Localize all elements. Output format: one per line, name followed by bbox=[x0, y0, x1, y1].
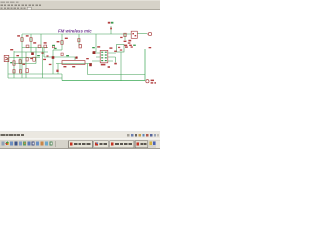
wire: vertical x=58 bbox=[57, 64, 59, 75]
value specks mid bbox=[42, 52, 49, 56]
resistor R7 bbox=[13, 61, 15, 65]
capacitor C2 bbox=[79, 45, 81, 48]
wire: vertical at x=125 bbox=[124, 34, 126, 40]
resistor R8 bbox=[19, 60, 21, 64]
transistor Q1 bbox=[131, 31, 137, 38]
menu / toolbar row bbox=[1, 4, 42, 6]
task button 4 (active) bbox=[135, 141, 148, 148]
resistor R5 bbox=[44, 45, 47, 48]
capacitor C3 bbox=[26, 58, 28, 61]
wire: vertical x=26 bbox=[25, 52, 27, 78]
status bar text bbox=[1, 134, 24, 136]
resistor R10 bbox=[19, 70, 21, 73]
resistor R11 bbox=[26, 69, 29, 73]
IC label text bbox=[101, 64, 106, 66]
wire: vertical at x=31 bbox=[30, 34, 32, 53]
node junction dot bbox=[75, 57, 77, 59]
value label specks bbox=[10, 35, 151, 72]
wire: output line y=33.5 right bbox=[137, 33, 147, 35]
taskbar bbox=[0, 139, 160, 149]
wire: top supply rail bbox=[22, 33, 131, 35]
wire: horizontal y=50 bbox=[53, 49, 62, 51]
resistor R6 bbox=[61, 41, 63, 45]
battery label bbox=[151, 80, 156, 84]
wire: horizontal y=63.5 bbox=[14, 63, 36, 65]
quick launch icons bbox=[2, 142, 53, 146]
wire: vertical x=121 bbox=[120, 52, 122, 81]
junction node square bbox=[93, 51, 96, 54]
resistor R1 bbox=[21, 38, 23, 42]
connector J1 (microphone input) bbox=[4, 55, 9, 61]
wire: horizontal y=74 mid bbox=[8, 73, 62, 75]
wire: vertical at x=62 bbox=[61, 34, 63, 50]
resistor R2 bbox=[30, 38, 32, 42]
wire: vertical x=62 lower bbox=[61, 74, 63, 81]
taskbar divider bbox=[54, 141, 57, 147]
wire: ground rail left y=78 bbox=[8, 77, 62, 79]
wire: horizontal y=74.5 right bbox=[88, 74, 146, 76]
wire: power stub at x=111 bbox=[110, 26, 112, 34]
wire: input line y=57.5 bbox=[9, 57, 40, 59]
wire: vertical x=87.5 bbox=[87, 64, 89, 75]
toolbar dropdown box bbox=[27, 7, 31, 9]
wire: stub x=115.5 bbox=[115, 57, 117, 63]
wire: horizontal y=52 bbox=[14, 51, 48, 53]
wire: vertical at x=41 bbox=[40, 34, 42, 48]
bottom white margin bbox=[0, 149, 160, 160]
wire: vertical at x=79 bbox=[78, 34, 80, 46]
resistor R4 bbox=[38, 45, 41, 48]
wire: vertical x=8 bbox=[7, 58, 9, 79]
system tray bbox=[149, 141, 160, 148]
wire: vertical x=36 bbox=[35, 48, 37, 64]
wire: ground rail right y=80.5 bbox=[62, 80, 145, 82]
wire: vertical x=14 bbox=[13, 51, 15, 78]
antenna output symbol bbox=[147, 32, 152, 35]
node junction blob bbox=[89, 63, 92, 66]
transistor Q2 mark bbox=[61, 53, 63, 56]
node junction blob C bbox=[52, 56, 55, 59]
battery B1 output jack bbox=[146, 80, 149, 83]
wire: IC left pins bbox=[92, 53, 100, 61]
wire: vertical at x=96 bbox=[95, 34, 97, 52]
title bar text bbox=[1, 1, 19, 2]
application chrome band bbox=[0, 0, 160, 10]
ground arrow mark bbox=[114, 63, 117, 65]
capacitor C6 bbox=[33, 57, 36, 61]
node junction blob B bbox=[31, 52, 34, 55]
wire: vertical x=42.5 bbox=[42, 48, 44, 79]
task button 1 bbox=[69, 141, 93, 148]
wire: vertical x=75 bbox=[74, 57, 76, 60]
page background bbox=[0, 0, 160, 160]
capacitor C5 bbox=[52, 45, 54, 47]
power net label +9V bbox=[108, 22, 114, 30]
status bar bbox=[0, 132, 160, 139]
svg-text:FM wireless mic: FM wireless mic bbox=[58, 28, 92, 33]
wire: vertical x=53 bbox=[52, 50, 54, 74]
capacitor C4 bbox=[124, 33, 126, 36]
wire: vertical x=20 bbox=[19, 58, 21, 73]
schematic canvas bbox=[0, 10, 160, 132]
wire: horizontal y=47.5 bbox=[22, 47, 48, 49]
task button 2 bbox=[94, 141, 109, 148]
task button 3 bbox=[110, 141, 134, 148]
wire: vertical at x=22 bbox=[21, 34, 23, 78]
resistor R3 bbox=[26, 45, 29, 48]
status tray icons bbox=[127, 134, 159, 137]
wire: vertical x=44 bbox=[43, 48, 45, 58]
wire: horizontal y=63.5 mid bbox=[56, 63, 92, 65]
wire: horizontal y=57 mid bbox=[44, 56, 75, 58]
op-amp U1 bbox=[100, 50, 110, 67]
wire: vertical x=145 right side bbox=[144, 49, 146, 81]
wire: IC right pins bbox=[108, 53, 116, 61]
relay K1 green box bbox=[117, 45, 125, 53]
resistor R9 bbox=[13, 70, 15, 73]
inductor L1 bbox=[62, 61, 85, 65]
capacitor C1 bbox=[78, 39, 80, 42]
second toolbar row bbox=[1, 8, 26, 10]
